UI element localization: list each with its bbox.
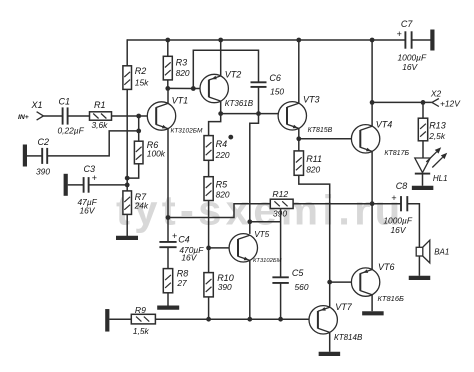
transistor VT4: [351, 125, 379, 153]
wire VT1 collector: [167, 88, 169, 103]
wire gnd-R9: [109, 318, 131, 320]
wire BA1-ground: [418, 256, 420, 276]
svg-text:16V: 16V: [402, 62, 418, 72]
capacitor C2: [41, 148, 43, 164]
svg-text:VT7: VT7: [335, 302, 353, 312]
wire R12 to output: [293, 203, 372, 205]
wire R3-node: [167, 80, 169, 89]
wire C8 to BA1: [407, 204, 419, 248]
svg-text:VT4: VT4: [376, 119, 393, 129]
wire R10-bottom: [208, 297, 210, 319]
wire C6 loop: [193, 50, 258, 88]
svg-text:27: 27: [176, 278, 187, 288]
wire rail-R3: [167, 40, 169, 56]
wire VT1e to R12: [168, 204, 270, 218]
wire R13-HL1: [422, 141, 424, 158]
svg-text:tyt-sxemi.ru: tyt-sxemi.ru: [116, 187, 404, 234]
resistor R1: [90, 112, 112, 120]
svg-text:C5: C5: [292, 268, 304, 278]
wire HL1-ground: [422, 174, 424, 186]
resistor R10: [204, 273, 213, 297]
transistor VT2: [200, 74, 228, 102]
wire C7 to ground: [412, 39, 431, 41]
stray dot near R4: [228, 135, 233, 140]
wire VT5 emitter: [249, 260, 251, 319]
wire VT3 emitter: [298, 128, 300, 139]
ground VT6: [362, 311, 384, 315]
wire VT4 collector: [371, 40, 373, 127]
svg-text:КТ814В: КТ814В: [334, 333, 363, 342]
svg-text:+: +: [391, 193, 396, 203]
node VT2 collector: [218, 111, 223, 116]
ground VT7: [319, 352, 341, 356]
wire VT7 emitter: [329, 282, 331, 308]
wire R9 to VT7 base: [155, 318, 309, 320]
node R13 tap: [421, 100, 426, 105]
node C6/VT5 tap: [256, 111, 261, 116]
wire +12V top rail: [127, 39, 405, 41]
node R10 bottom: [206, 317, 211, 322]
ground BA1: [409, 276, 431, 280]
svg-text:560: 560: [295, 282, 309, 292]
svg-text:VT1: VT1: [172, 95, 189, 105]
svg-text:IN+: IN+: [18, 114, 29, 121]
node +12V tap: [370, 100, 375, 105]
wire R12 bottom tap: [280, 209, 282, 278]
resistor R2: [123, 66, 132, 90]
wire rail corner down to R2: [126, 39, 128, 66]
resistor R7: [123, 191, 132, 215]
capacitor C5: [272, 276, 288, 278]
svg-text:24k: 24k: [134, 201, 149, 211]
svg-text:R9: R9: [135, 305, 146, 315]
transistor VT3: [278, 102, 306, 130]
wire X1-C1: [43, 115, 62, 117]
capacitor C8: [400, 196, 402, 211]
node rail-VT2: [218, 38, 223, 43]
wire VT5 collector line: [250, 114, 259, 234]
resistor R5: [204, 177, 213, 201]
wire VT7 collector: [329, 332, 331, 352]
transistor VT6: [351, 268, 379, 296]
svg-text:0,22µF: 0,22µF: [58, 126, 85, 136]
wire to VT2 base: [193, 88, 200, 90]
svg-text:X2: X2: [430, 89, 442, 99]
wire VT2 emitter to rail: [220, 40, 222, 76]
node output: [370, 201, 375, 206]
svg-text:820: 820: [306, 164, 320, 174]
wire VT1 emitter: [167, 128, 169, 217]
svg-text:R3: R3: [176, 58, 188, 68]
wire VT3e-R11: [298, 139, 300, 151]
wire R7-ground: [126, 214, 128, 236]
svg-text:1000µF: 1000µF: [398, 53, 427, 63]
wire VT3e to VT4 base: [299, 138, 352, 140]
wire R4-R5: [208, 160, 210, 176]
wire VT3 collector: [298, 40, 300, 104]
svg-text:390: 390: [218, 282, 232, 292]
svg-text:3,6k: 3,6k: [92, 120, 109, 130]
svg-text:КТ3102БМ: КТ3102БМ: [171, 128, 203, 135]
svg-text:R5: R5: [216, 179, 228, 189]
node VT1 emitter: [166, 215, 171, 220]
speaker BA1: [416, 247, 423, 256]
resistor R6: [134, 141, 143, 164]
resistor R11: [294, 151, 303, 175]
wire C5 bottom: [280, 283, 282, 319]
capacitor C3: [83, 177, 85, 193]
node VT5 emitter bottom: [247, 317, 252, 322]
svg-text:КТ815В: КТ815В: [308, 127, 333, 134]
wire R11 to bias line: [299, 175, 330, 282]
svg-text:2,5k: 2,5k: [428, 131, 446, 141]
svg-text:VT2: VT2: [225, 69, 242, 79]
wire C4-R8: [167, 247, 169, 268]
wire VT5c to R12 tap: [250, 221, 281, 223]
wire R2-R7: [126, 89, 128, 190]
wire R1-VT1 base: [112, 115, 148, 117]
node rail-VT3: [296, 38, 301, 43]
ground HL1: [412, 186, 434, 190]
node VT3 emitter: [296, 136, 301, 141]
wire jog to R4: [209, 114, 221, 136]
connector X2: [432, 99, 439, 103]
wire C6 bottom: [258, 87, 260, 114]
wire +12V to X2: [372, 101, 432, 103]
svg-text:C4: C4: [178, 234, 190, 244]
svg-text:C1: C1: [59, 96, 71, 106]
wire VT6 base: [330, 281, 352, 283]
wire output to C8: [372, 203, 401, 205]
svg-text:820: 820: [176, 68, 190, 78]
resistor R8: [163, 269, 172, 293]
svg-text:VT5: VT5: [254, 230, 269, 239]
svg-text:16V: 16V: [391, 225, 407, 235]
resistor R3: [163, 56, 172, 80]
connector X1: [37, 112, 44, 116]
node rail-VT4/C7: [370, 38, 375, 43]
wire gnd-C3: [68, 184, 84, 186]
node VT1 base: [136, 114, 141, 119]
svg-text:HL1: HL1: [433, 174, 448, 183]
wire VT2 collector: [220, 101, 222, 114]
svg-text:R2: R2: [135, 66, 147, 76]
svg-text:VT6: VT6: [378, 262, 395, 272]
wire C3 to R2/R7: [89, 184, 128, 186]
wire VT6 collector: [371, 295, 373, 312]
wire R13 top: [422, 102, 424, 118]
svg-text:15k: 15k: [135, 78, 149, 88]
transistor VT1: [147, 102, 175, 130]
wire VT2c-VT3b: [221, 113, 278, 115]
node VT5 collector: [247, 219, 252, 224]
ground C3: [64, 174, 68, 196]
svg-text:КТ3102БМ: КТ3102БМ: [253, 258, 282, 264]
ground C7: [430, 30, 434, 51]
capacitor C7: [404, 31, 406, 48]
ground R8: [157, 306, 179, 310]
svg-text:R1: R1: [94, 100, 106, 110]
svg-text:C8: C8: [396, 181, 408, 191]
svg-text:820: 820: [216, 189, 230, 199]
transistor VT7: [309, 306, 337, 334]
wire gnd-C2: [27, 155, 42, 157]
resistor R12: [270, 199, 293, 208]
wire R8-ground: [167, 293, 169, 306]
node C3 joins: [125, 183, 130, 188]
svg-text:C2: C2: [38, 137, 50, 147]
wire VT1 base node to R3 node: [168, 87, 194, 89]
svg-text:R11: R11: [306, 154, 322, 164]
wire VT4 emitter to VT6: [371, 151, 373, 270]
svg-text:16V: 16V: [181, 253, 197, 263]
svg-text:100k: 100k: [147, 148, 166, 158]
svg-text:C6: C6: [269, 73, 281, 83]
svg-text:+12V: +12V: [440, 99, 461, 109]
wire base node down to R6: [138, 116, 140, 141]
capacitor C6: [251, 81, 267, 83]
resistor R9: [131, 314, 155, 324]
wire C2 to VT1 base node: [47, 131, 139, 156]
ground R9: [105, 309, 109, 332]
svg-text:16V: 16V: [80, 205, 96, 215]
svg-text:+: +: [397, 29, 402, 39]
node rail-R3: [165, 38, 170, 43]
resistor R13: [418, 118, 427, 141]
svg-text:R12: R12: [272, 189, 288, 199]
resistor R4: [204, 136, 213, 161]
svg-text:КТ816Б: КТ816Б: [378, 294, 405, 303]
ground R7: [116, 236, 138, 240]
svg-text:+: +: [172, 231, 177, 241]
wire R6 to R2 line: [127, 164, 139, 178]
node C5 bottom: [278, 317, 283, 322]
ground C2: [23, 145, 27, 167]
LED arrow 1: [426, 152, 436, 162]
svg-text:150: 150: [270, 87, 284, 97]
node VT1 collector: [165, 86, 170, 91]
wire VT5 base: [209, 247, 230, 249]
svg-text:X1: X1: [31, 100, 43, 110]
svg-text:BA1: BA1: [434, 247, 449, 256]
wire C1-R1: [68, 115, 90, 117]
wire R5-R10: [208, 201, 210, 273]
svg-text:R13: R13: [429, 120, 446, 130]
svg-text:R4: R4: [216, 139, 228, 149]
node VT2 base: [191, 86, 196, 91]
svg-text:+: +: [92, 173, 97, 183]
node R6 bottom joins: [125, 176, 130, 181]
svg-text:1,5k: 1,5k: [133, 326, 150, 336]
svg-text:КТ817Б: КТ817Б: [384, 150, 409, 157]
LED HL1: [415, 158, 430, 173]
svg-text:КТ361В: КТ361В: [225, 99, 254, 108]
svg-text:VT3: VT3: [303, 94, 320, 104]
transistor VT5: [229, 234, 257, 262]
capacitor C4: [159, 241, 176, 243]
svg-text:220: 220: [215, 150, 230, 160]
svg-text:C7: C7: [401, 19, 413, 29]
svg-text:390: 390: [36, 167, 50, 177]
LED arrow 2: [432, 157, 442, 167]
wire C4 top: [167, 218, 169, 242]
node C2 tap: [136, 129, 141, 134]
capacitor C1: [62, 107, 64, 124]
node VT6 base / VT7 emitter: [327, 280, 332, 285]
node VT5 base tap: [206, 246, 211, 251]
